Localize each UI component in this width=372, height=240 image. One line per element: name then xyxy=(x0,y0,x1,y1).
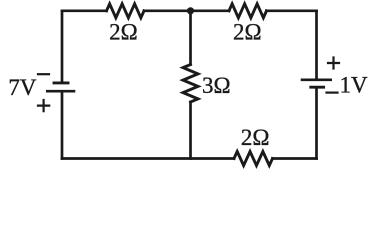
wire middle branch upper xyxy=(189,11,192,65)
wire middle branch lower xyxy=(189,102,192,159)
wire top middle to right resistor xyxy=(191,9,230,12)
svg-text:2Ω: 2Ω xyxy=(241,125,270,150)
wire left side upper xyxy=(61,11,64,82)
wire bottom-left segment xyxy=(62,157,234,160)
resistor R2 2ohm top-right xyxy=(229,4,267,18)
svg-text:2Ω: 2Ω xyxy=(109,20,138,45)
resistor R1 2ohm top-left xyxy=(107,4,145,18)
minus sign left battery xyxy=(38,73,49,75)
battery V1 7V long plate (+) xyxy=(47,90,74,93)
resistor R3 2ohm bottom xyxy=(234,152,273,166)
wire right side upper xyxy=(315,11,318,79)
wire top-left to middle node xyxy=(144,9,191,12)
svg-text:7V: 7V xyxy=(8,75,37,100)
node junction dot top middle xyxy=(187,7,194,14)
svg-text:3Ω: 3Ω xyxy=(202,73,231,98)
battery V1 7V short plate (-) xyxy=(54,81,68,84)
wire right side lower xyxy=(315,88,318,158)
wire top-left segment xyxy=(62,9,107,12)
plus sign left battery xyxy=(38,100,49,111)
battery V2 1V long plate (+) xyxy=(302,79,331,82)
wire top-right segment xyxy=(267,9,317,12)
resistor R4 3ohm middle xyxy=(183,65,198,103)
plus sign right battery xyxy=(328,58,339,69)
svg-text:1V: 1V xyxy=(340,72,369,97)
svg-text:2Ω: 2Ω xyxy=(233,20,262,45)
wire bottom-right segment xyxy=(273,157,317,160)
wire left side lower xyxy=(61,92,64,158)
battery V2 1V short plate (-) xyxy=(311,86,324,89)
minus sign right battery xyxy=(327,91,338,93)
